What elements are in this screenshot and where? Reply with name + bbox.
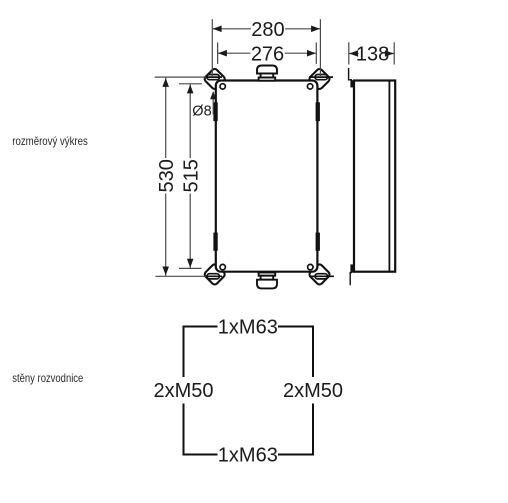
lid screw hole top-left (220, 84, 225, 89)
dimension 280 text (251, 21, 285, 38)
dimension 530 line (165, 78, 167, 276)
svg-text:1xM63: 1xM63 (218, 444, 278, 466)
wall bracket bottom (350, 264, 354, 272)
enclosure body front view (216, 81, 318, 272)
extension line 515 top (179, 83, 202, 85)
mounting lug top-left (203, 68, 226, 91)
svg-text:138: 138 (356, 43, 389, 65)
side view body (354, 81, 395, 272)
leader arrow (210, 91, 216, 99)
mounting lug bottom-left (203, 263, 226, 286)
dimension 138 line (349, 53, 394, 55)
svg-text:280: 280 (251, 19, 284, 41)
dimension 530 arrow bottom (162, 267, 169, 276)
extension line 276 right (315, 42, 317, 64)
dimension 276 arrow left (218, 50, 227, 57)
lid screw hole bottom-right (308, 264, 313, 269)
svg-text:515: 515 (180, 159, 202, 192)
dimension 138 text (359, 45, 389, 62)
dimension 276 line (218, 52, 317, 54)
svg-text:stěny rozvodnice: stěny rozvodnice (12, 371, 83, 385)
hinge mark right lower (316, 233, 320, 251)
dimension 515 arrow top (187, 85, 194, 94)
mounting lug bottom-right (308, 263, 334, 286)
dimension 515 arrow bottom (187, 259, 194, 268)
svg-text:2xM50: 2xM50 (283, 380, 343, 402)
extension line 138 left (348, 42, 350, 64)
dimension 530 text (157, 158, 174, 194)
dimension 138 arrow right (385, 50, 394, 57)
hinge mark right upper (316, 102, 320, 121)
extension line 276 left (217, 42, 219, 64)
dimension 276 text (251, 45, 285, 62)
dimension 280 line (212, 28, 320, 30)
svg-text:530: 530 (156, 159, 178, 192)
extension line 515 bottom (179, 267, 202, 269)
extension line 530 top (155, 76, 206, 78)
side view lid edge line (388, 81, 390, 271)
svg-text:Ø8: Ø8 (192, 104, 211, 120)
cable gland bottom neck (261, 276, 274, 280)
cable gland bottom flange (259, 273, 276, 276)
dimension 280 arrow left (213, 26, 222, 33)
gap for left text (153, 377, 213, 404)
dimension 515 line (189, 84, 191, 268)
lid screw hole top-right (307, 84, 312, 89)
dimension 138 arrow left (349, 50, 358, 57)
svg-text:1xM63: 1xM63 (218, 316, 278, 338)
hinge mark left lower (213, 233, 217, 251)
dimension 280 arrow right (311, 26, 320, 33)
dimension 276 arrow right (307, 50, 316, 57)
mounting lug top-right (308, 68, 333, 91)
extension line 530 bottom (155, 275, 206, 277)
hinge mark left upper (213, 102, 217, 121)
svg-text:276: 276 (251, 43, 284, 65)
lid screw hole bottom-left (220, 264, 225, 269)
leader line for hole diameter (212, 92, 214, 115)
gland-wall square outline (184, 327, 314, 455)
gap for top text (218, 319, 279, 336)
svg-text:rozměrový výkres: rozměrový výkres (12, 134, 88, 148)
cable gland top flange (259, 78, 276, 81)
extension line 280 left (through top-left slot) (211, 19, 213, 77)
cable gland top neck (261, 74, 274, 78)
svg-text:2xM50: 2xM50 (153, 380, 213, 402)
gap for right text (283, 377, 343, 404)
dimension 515 text (182, 158, 199, 194)
extension line 280 right (through top-right slot) (319, 19, 321, 77)
cable gland bottom cap (257, 280, 277, 289)
cable gland top cap (257, 66, 277, 74)
dimension 530 arrow top (162, 78, 169, 87)
extension line 138 right (393, 42, 395, 64)
wall bracket top (349, 68, 352, 80)
gap for bottom text (218, 447, 279, 464)
